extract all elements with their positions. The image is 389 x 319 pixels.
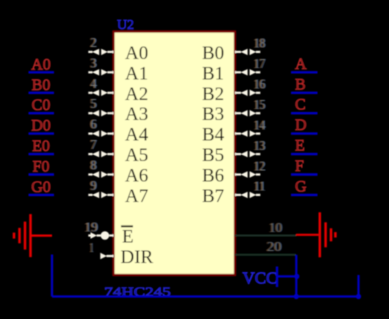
pin 9 (A7) left, bidirectional arrow: [88, 178, 113, 198]
svg-text:5: 5: [90, 96, 96, 111]
svg-text:6: 6: [90, 117, 96, 132]
svg-text:F: F: [295, 158, 304, 175]
svg-text:8: 8: [90, 158, 96, 173]
svg-text:B0: B0: [202, 43, 224, 64]
wire stub G: [291, 194, 318, 196]
pin 5 (A3) left, bidirectional arrow: [88, 96, 113, 116]
pin 8 (A6) left, bidirectional arrow: [88, 158, 113, 178]
pin 12 (B6) right, bidirectional arrow: [235, 158, 266, 177]
svg-text:F0: F0: [33, 159, 50, 176]
svg-text:13: 13: [254, 138, 266, 153]
wire stub D: [291, 132, 318, 134]
junction at bottom rail right: [356, 294, 361, 299]
wire stub D0: [29, 132, 55, 134]
pin 20 (VCC) hidden power pin line: [235, 239, 296, 255]
svg-text:A0: A0: [125, 43, 148, 64]
svg-text:C0: C0: [32, 97, 51, 114]
wire: vertical drop from pin 20 end: [295, 255, 297, 297]
svg-text:VCC: VCC: [243, 269, 278, 288]
wire: short vertical right: [357, 275, 359, 297]
wire stub G0: [29, 194, 55, 196]
svg-text:G0: G0: [31, 179, 51, 196]
svg-text:B0: B0: [32, 77, 51, 94]
svg-text:1: 1: [90, 240, 94, 255]
wire: bottom horizontal rail: [52, 295, 359, 297]
IC U2 body (74HC245): [114, 32, 236, 276]
svg-text:B1: B1: [202, 63, 224, 84]
wire stub F: [291, 173, 318, 175]
svg-text:B2: B2: [202, 84, 224, 105]
svg-text:18: 18: [254, 36, 266, 51]
wire stub C0: [29, 112, 55, 114]
wire stub A0: [29, 71, 55, 73]
svg-text:E: E: [122, 227, 134, 248]
junction at bottom rail / pin20 drop: [294, 294, 299, 299]
pin 15 (B3) right, bidirectional arrow: [235, 97, 266, 116]
svg-text:10: 10: [269, 220, 283, 235]
pin 10 (GND) hidden power pin line: [235, 220, 296, 236]
wire stub C: [291, 112, 318, 114]
svg-text:B4: B4: [202, 125, 225, 146]
svg-text:A3: A3: [125, 104, 148, 125]
svg-text:C: C: [295, 97, 306, 114]
pin 14 (B4) right, bidirectional arrow: [235, 117, 266, 136]
pin 3 (A1) left, bidirectional arrow: [88, 55, 113, 75]
pin 17 (B1) right, bidirectional arrow: [235, 56, 266, 75]
svg-text:11: 11: [254, 179, 266, 194]
junction at VCC tap: [294, 274, 299, 279]
power port VCC: [243, 267, 298, 288]
pin 18 (B0) right, bidirectional arrow: [235, 36, 266, 55]
wire stub E: [291, 153, 318, 155]
svg-text:D0: D0: [31, 118, 51, 135]
svg-text:7: 7: [90, 137, 96, 152]
svg-text:20: 20: [267, 239, 282, 254]
wire stub B: [291, 92, 318, 94]
svg-text:3: 3: [90, 55, 96, 70]
svg-text:19: 19: [84, 220, 98, 235]
svg-text:2: 2: [90, 35, 96, 50]
wire stub B0: [29, 92, 55, 94]
pin 19 (E enable, active-low) with bubble: [83, 220, 113, 240]
svg-text:A: A: [295, 56, 307, 73]
power ground symbol (left): [14, 214, 52, 257]
svg-text:17: 17: [254, 56, 266, 71]
svg-text:B7: B7: [202, 186, 224, 207]
wire stub F0: [29, 173, 55, 175]
svg-text:4: 4: [90, 76, 96, 91]
svg-text:DIR: DIR: [121, 247, 154, 268]
pin 7 (A5) left, bidirectional arrow: [88, 137, 113, 157]
svg-text:A1: A1: [125, 63, 148, 84]
wire stub A: [291, 71, 318, 73]
svg-text:14: 14: [254, 117, 266, 132]
pin 13 (B5) right, bidirectional arrow: [235, 138, 266, 157]
svg-text:A5: A5: [125, 145, 148, 166]
svg-text:B: B: [295, 76, 306, 93]
svg-text:16: 16: [254, 77, 266, 92]
svg-text:U2: U2: [117, 18, 134, 33]
svg-text:B3: B3: [202, 104, 224, 125]
wire: vertical from ground area down to bottom rail (left): [51, 255, 53, 297]
svg-text:G: G: [295, 178, 307, 195]
pin 6 (A4) left, bidirectional arrow: [88, 117, 113, 137]
pin 16 (B2) right, bidirectional arrow: [235, 77, 266, 96]
pin 1 (DIR) input arrow: [89, 240, 114, 259]
pin 11 (B7) right, bidirectional arrow: [235, 179, 266, 198]
svg-text:B5: B5: [202, 145, 224, 166]
svg-text:12: 12: [254, 158, 266, 173]
wire stub E0: [29, 153, 55, 155]
svg-text:A7: A7: [125, 186, 148, 207]
svg-text:D: D: [295, 117, 307, 134]
svg-text:15: 15: [254, 97, 266, 112]
pin 4 (A2) left, bidirectional arrow: [88, 76, 113, 96]
svg-text:E0: E0: [32, 138, 50, 155]
svg-text:9: 9: [90, 178, 96, 193]
pin 2 (A0) left, bidirectional arrow: [88, 35, 113, 55]
svg-text:A4: A4: [125, 125, 149, 146]
svg-text:A6: A6: [125, 166, 148, 187]
svg-text:B6: B6: [202, 166, 224, 187]
power ground symbol (right): [296, 212, 335, 257]
svg-text:A2: A2: [125, 84, 148, 105]
svg-text:A0: A0: [31, 56, 51, 73]
svg-text:E: E: [295, 138, 305, 155]
